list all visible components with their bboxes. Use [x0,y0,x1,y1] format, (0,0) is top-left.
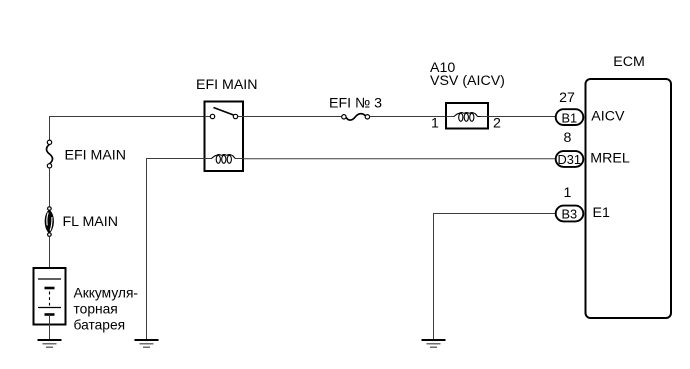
svg-text:8: 8 [564,130,572,146]
svg-text:27: 27 [559,90,575,106]
VSV (AICV) solenoid A10 [446,103,488,129]
fuse EFI MAIN [47,140,53,168]
relay coil [205,155,244,164]
ground (E1) [422,340,446,347]
wire relay to fuse EFI No3 [243,116,342,118]
wire battery- to ground [49,315,51,341]
fuse EFI No 3 [342,114,370,120]
ECM box [586,79,672,318]
wire EFI MAIN fuse to FL MAIN [49,168,51,207]
svg-text:торная: торная [74,302,118,317]
label A10 VSV (AICV) [430,60,505,89]
svg-text:EFI № 3: EFI № 3 [329,96,382,112]
ground (relay coil) [135,340,159,347]
ground (battery) [38,340,62,347]
battery (Аккумуляторная батарея) [34,268,66,325]
svg-text:D31: D31 [558,152,581,167]
svg-text:AICV: AICV [591,109,625,125]
wire VSV to ECM pin B1 [488,116,560,118]
wire battery+ to EFI MAIN relay (top horizontal) [50,117,205,141]
wire ECM pin B3 to ground [434,214,561,341]
svg-text:1: 1 [564,185,572,201]
connector pin B1 [556,109,584,125]
relay EFI MAIN [205,102,244,172]
switch contacts [205,116,211,118]
svg-text:E1: E1 [593,205,610,221]
svg-text:ECM: ECM [613,54,645,70]
connector pin B3 [556,206,584,222]
wire relay coil to ground (left) [147,159,205,341]
wire relay coil to ECM pin D31 [243,158,556,160]
wire fuse EFI No3 to VSV [370,116,446,118]
svg-text:батарея: батарея [74,318,126,333]
svg-text:B3: B3 [561,207,577,222]
svg-text:EFI MAIN: EFI MAIN [196,77,257,93]
svg-text:FL MAIN: FL MAIN [63,214,118,230]
svg-text:Аккумуля-: Аккумуля- [74,286,139,301]
svg-text:VSV (AICV): VSV (AICV) [430,73,505,89]
svg-text:2: 2 [493,116,501,132]
svg-text:MREL: MREL [590,151,630,167]
svg-text:1: 1 [431,116,439,132]
svg-text:B1: B1 [561,110,577,125]
connector pin D31 [556,151,584,167]
wire FL MAIN to battery [49,237,51,280]
fusible link FL MAIN [45,207,54,237]
svg-text:EFI MAIN: EFI MAIN [65,147,126,163]
label battery [74,286,139,333]
